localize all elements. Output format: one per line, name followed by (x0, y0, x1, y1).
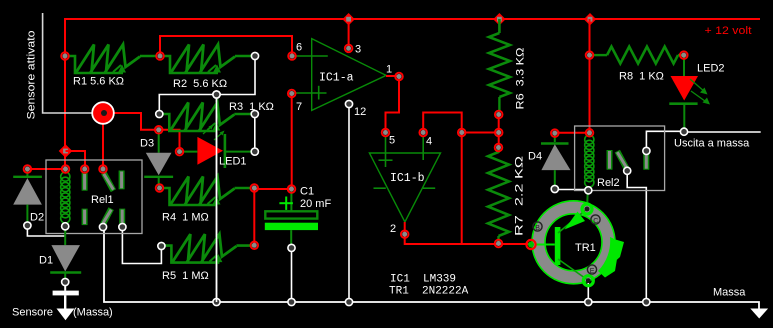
label IC1-b (390, 172, 425, 185)
wire Rel2 pivot down (627, 171, 646, 302)
label IC1 LM339 (390, 274, 456, 286)
label pin5 (389, 135, 395, 147)
wire C1 bottom to ground bus (291, 248, 293, 302)
label Massa (713, 287, 746, 299)
wire +12V top bus (65, 18, 760, 20)
wire pin3 stub (348, 19, 350, 48)
label R2 (173, 78, 227, 90)
svg-text:IC1-b: IC1-b (390, 172, 425, 185)
node C1 top (288, 185, 296, 193)
label D2 (30, 212, 44, 224)
relay Rel1 contact bar lower-left (82, 209, 88, 226)
wire pin7 to C1 top (291, 94, 293, 190)
svg-text:LED2: LED2 (697, 63, 725, 75)
label pin12 (354, 106, 366, 118)
node D4 bottom (551, 185, 558, 192)
svg-text:C1: C1 (300, 186, 314, 198)
node R7 bottom (495, 240, 503, 248)
label TR1 2N2222A (389, 286, 469, 298)
node Rel1 pivot (99, 223, 106, 230)
node bus x588 (585, 298, 592, 305)
svg-text:TR1 2N2222A: TR1 2N2222A (389, 286, 469, 298)
wire D2 bottom link (27, 226, 65, 237)
wire divider to ground bus (216, 95, 218, 303)
wire Rel2 contact to uscita (646, 131, 684, 151)
node D3 top (155, 126, 163, 134)
node junction (65.5,151) (59, 144, 73, 158)
op-amp U2 IC1-b (369, 136, 440, 234)
node LED1 cathode (251, 148, 258, 155)
node R6 bottom (495, 111, 503, 119)
node divider junction marker (213, 91, 220, 98)
wire TR1 collector lead up (586, 191, 589, 210)
wire R1R2 node up-over to pin6 (160, 36, 292, 56)
svg-text:Rel2: Rel2 (597, 177, 620, 189)
LED LED2 (669, 76, 710, 105)
wire R2 right down-left to R3 left (159, 56, 255, 114)
label R7 (514, 156, 526, 236)
svg-text:C: C (593, 218, 598, 225)
node Rel1 coil top (62, 165, 70, 173)
wire IC1b out loop to TR1 base (405, 234, 531, 244)
svg-text:Uscita a massa: Uscita a massa (674, 138, 750, 150)
node Rel1 coil bottom (62, 223, 69, 230)
diode D2 (13, 169, 42, 223)
label R5 (162, 270, 209, 282)
label Rel1 (91, 194, 114, 206)
wire divider to ground bus overlay (216, 95, 218, 303)
label R4 (162, 212, 209, 224)
relay Rel1 box (46, 160, 142, 234)
node bus x216 (213, 298, 220, 305)
node Rel2 pivot (624, 167, 631, 174)
relay Rel1 contact bar upper-left (82, 173, 88, 191)
pin6 node (288, 52, 296, 60)
svg-text:Massa: Massa (713, 287, 746, 299)
wire D4 Rel2 coil top (555, 132, 590, 134)
node bus x349 (345, 298, 352, 305)
label LED2 (697, 63, 725, 75)
svg-text:R1 5.6 KΩ: R1 5.6 KΩ (73, 76, 124, 88)
node D3R4 (156, 184, 164, 192)
wire pin4 loop (423, 113, 462, 133)
resistor R6 (489, 33, 510, 112)
svg-text:Rel1: Rel1 (91, 194, 114, 206)
wire R6 bottom to junction (498, 115, 500, 153)
wire +12V right rail x=589.5 (589, 19, 591, 133)
node Rel2 coil top (586, 129, 594, 137)
wire LED2 anode lead (683, 55, 685, 77)
relay Rel1 contact arm upper (104, 173, 114, 191)
sensor terminal (92, 102, 114, 124)
node Rel1 pin3 (99, 165, 107, 173)
node bus junction x=499.4 (493, 13, 505, 25)
node uscita (680, 128, 687, 135)
wire C1 to R4 right (254, 188, 291, 190)
wire left rail x=65 (64, 18, 66, 169)
relay Rel2 contact bar right (643, 151, 649, 170)
resistor R2 (163, 45, 252, 74)
wire junction row y=132.5 (462, 132, 499, 134)
svg-text:IC1 LM339: IC1 LM339 (390, 274, 456, 286)
node bus junction x=348.6 (342, 13, 354, 25)
node bus x291 (288, 298, 295, 305)
pin3 node (345, 45, 353, 53)
resistor R8 (591, 47, 682, 64)
node Rel1 out right (119, 223, 126, 230)
node Rel2 coil bottom (585, 187, 592, 194)
label LED1 (219, 156, 247, 168)
label pin1 (386, 64, 392, 76)
node R7 top (495, 144, 503, 152)
wire ground bus (104, 227, 759, 310)
svg-text:D3: D3 (140, 138, 154, 150)
svg-text:R8 1 KΩ: R8 1 KΩ (619, 71, 664, 83)
relay Rel2 box (575, 126, 665, 191)
wire junction to Rel1 pin2 (66, 151, 86, 169)
label pin6 (296, 42, 302, 54)
node R2 right (251, 52, 258, 59)
label +12 volt (705, 25, 752, 37)
label C1 (300, 186, 314, 198)
svg-text:1: 1 (386, 64, 392, 76)
svg-text:R4 1 MΩ: R4 1 MΩ (162, 212, 209, 224)
pin2 node (401, 230, 409, 238)
resistor R1 (68, 45, 157, 74)
capacitor C1 (265, 191, 318, 245)
svg-text:Sensore attivato: Sensore attivato (26, 31, 38, 120)
svg-text:12: 12 (354, 106, 366, 118)
pin7 node (288, 90, 296, 98)
pin12 node (345, 100, 352, 107)
svg-text:R5 1 MΩ: R5 1 MΩ (162, 270, 209, 282)
node D4 top (551, 129, 559, 137)
label R6 (515, 48, 527, 110)
node Rel1 pin2 (81, 165, 89, 173)
wire R6 top lead (498, 19, 501, 33)
wire LED2 cathode lead (683, 104, 685, 131)
wire Rel1 to R5 left (122, 227, 161, 264)
wire feedback vertical x=461.7 (461, 133, 463, 245)
TR1 emitter node (583, 276, 593, 286)
TR1 base node (526, 240, 535, 249)
label pin4 (426, 136, 432, 148)
relay Rel2 contact arm (617, 151, 627, 170)
ground massa arrow (750, 309, 768, 319)
relay Rel1 contact bar upper-right (119, 171, 125, 190)
node R3 right (251, 110, 258, 117)
node bus junction x=590 (584, 13, 596, 25)
svg-text:7: 7 (296, 101, 302, 113)
svg-text:+ 12 volt: + 12 volt (705, 25, 752, 37)
svg-text:2: 2 (390, 223, 396, 235)
label sensore attivato (26, 31, 38, 120)
node LED1 anode (176, 148, 184, 156)
op-amp U1 IC1-a (294, 39, 399, 111)
relay Rel1 contact arm lower (103, 209, 111, 225)
resistor R7 (488, 148, 509, 244)
node junction A (458, 129, 466, 137)
svg-text:B: B (535, 225, 540, 232)
node bus x646 (643, 298, 650, 305)
label D4 (528, 151, 542, 163)
wire R3 right to LED1 cathode (254, 114, 256, 152)
svg-text:Sensore: Sensore (12, 307, 53, 319)
resistor R4 (163, 177, 252, 206)
node D2 top (24, 165, 32, 173)
wire uscita a massa (684, 131, 761, 133)
label C1 value (300, 198, 331, 210)
label pin3 (355, 44, 361, 56)
svg-text:E: E (590, 268, 595, 275)
node R3 left (156, 110, 163, 117)
node divider junction (213, 91, 220, 98)
svg-text:D1: D1 (39, 255, 53, 267)
relay Rel2 coil (585, 135, 594, 187)
node junction R6R7 (495, 129, 503, 137)
svg-text:R7 2.2 KΩ: R7 2.2 KΩ (514, 156, 526, 236)
node R8 left (586, 51, 594, 59)
diode D1 (50, 228, 81, 280)
wire D2 top to Rel1 coil (27, 168, 65, 170)
svg-text:IC1-a: IC1-a (319, 72, 354, 85)
wire sensore attivato line (43, 13, 93, 113)
diode D4 (541, 133, 571, 187)
label D3 (140, 138, 154, 150)
svg-text:TR1: TR1 (575, 242, 596, 254)
pin5 node (382, 129, 390, 137)
ground sensore massa (53, 286, 79, 320)
wire D4 bottom to coil bottom (555, 189, 589, 191)
label R1 (73, 76, 124, 88)
pin4 node (419, 129, 427, 137)
relay Rel1 contact bar lower-right (119, 209, 125, 224)
label uscita a massa (674, 138, 750, 150)
relay Rel2 contact bar left (607, 150, 613, 170)
resistor R5 (164, 234, 253, 263)
pin1 node (395, 73, 403, 81)
diode D3 (144, 132, 173, 186)
svg-text:4: 4 (426, 136, 432, 148)
label R3 (229, 101, 274, 113)
label TR1 (575, 242, 596, 254)
wire D3 to LED1 anode (159, 130, 180, 152)
node R1R2 junction (156, 52, 164, 60)
wire TR1 emitter to bus (587, 281, 589, 302)
TR1 collector node (582, 204, 592, 214)
node D2 bottom (24, 222, 31, 229)
svg-text:6: 6 (296, 42, 302, 54)
wire pin12 to ground bus (348, 104, 350, 302)
label Rel2 (597, 177, 620, 189)
node R5 right (251, 242, 259, 250)
label pin2 (390, 223, 396, 235)
LED LED1 (181, 125, 252, 169)
wire R4 right to R5 right (253, 188, 255, 245)
svg-text:20 mF: 20 mF (300, 198, 331, 210)
svg-text:D2: D2 (30, 212, 44, 224)
node C1 bottom (288, 244, 295, 251)
svg-text:3: 3 (355, 44, 361, 56)
relay Rel1 coil (61, 172, 70, 223)
svg-text:R2 5.6 KΩ: R2 5.6 KΩ (173, 78, 227, 90)
label R8 (619, 71, 664, 83)
wire sensor circle down to Rel1 pin3 (102, 122, 104, 169)
label D1 (39, 255, 53, 267)
label pin7 (296, 101, 302, 113)
node R1 left (61, 52, 69, 60)
transistor Q1 TR1 (532, 201, 624, 284)
node Rel2 right contact (643, 147, 650, 154)
svg-text:R6 3.3 KΩ: R6 3.3 KΩ (515, 48, 527, 110)
svg-text:(Massa): (Massa) (73, 307, 113, 319)
wire sensor circle right to D3 (103, 113, 159, 130)
label Sensore (Massa) (12, 307, 113, 319)
node R4 right (251, 184, 259, 192)
node D1 bottom (62, 278, 69, 285)
node R8 right (680, 51, 688, 59)
resistor R3 (162, 103, 251, 132)
svg-text:5: 5 (389, 135, 395, 147)
label IC1-a (319, 72, 354, 85)
svg-text:D4: D4 (528, 151, 542, 163)
node R5 left (158, 242, 165, 249)
svg-text:LED1: LED1 (219, 156, 247, 168)
wire IC1a out to pin5 (386, 77, 400, 133)
